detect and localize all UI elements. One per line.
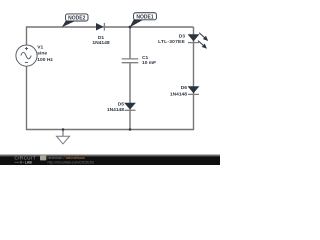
svg-text:D6: D6 (181, 85, 188, 91)
svg-text:sine: sine (37, 51, 47, 57)
svg-text:http://circuitlab.com/c/5z5c53: http://circuitlab.com/c/5z5c53 (48, 160, 94, 164)
svg-text:LTL-307EE: LTL-307EE (158, 39, 185, 45)
svg-text:LAB: LAB (25, 161, 33, 165)
svg-text:1N4148: 1N4148 (107, 107, 124, 113)
svg-text:V1: V1 (37, 44, 43, 50)
svg-text:NODE1: NODE1 (136, 14, 153, 20)
svg-text:1N4148: 1N4148 (92, 40, 109, 46)
svg-text:D5: D5 (118, 101, 125, 107)
svg-text:100 Hz: 100 Hz (37, 57, 53, 63)
svg-text:10 mF: 10 mF (142, 60, 156, 66)
svg-text:D1: D1 (98, 35, 105, 41)
svg-text:1N4148: 1N4148 (170, 91, 187, 97)
svg-text:C1: C1 (142, 55, 149, 61)
svg-text:D3: D3 (179, 33, 186, 39)
svg-text:NODE2: NODE2 (68, 15, 85, 21)
